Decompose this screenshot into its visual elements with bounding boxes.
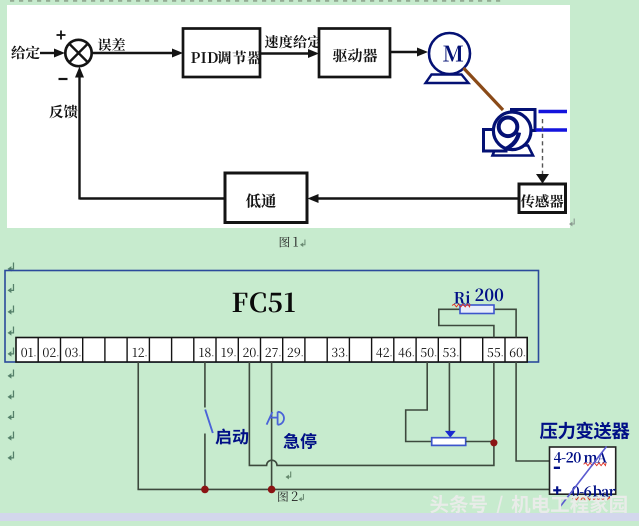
- resistor Ri 200: [460, 305, 494, 314]
- estop symbol: [267, 412, 273, 425]
- wire pot right to junction: [466, 441, 494, 443]
- wire feedback: [80, 197, 226, 199]
- label 压力变送器: [540, 422, 630, 440]
- white panel of figure 1: [7, 5, 570, 228]
- wire terminal 18 lower: [204, 434, 206, 490]
- transmitter minus: [554, 467, 560, 469]
- junction dot 27-bus: [268, 486, 276, 494]
- wire driver to motor: [390, 51, 421, 53]
- watermark 头条号/机电工程家园: [430, 495, 627, 515]
- label 急停 (e-stop): [284, 433, 317, 449]
- wire terminal 20 with crossover hop: [249, 362, 494, 465]
- bottom window bar: [0, 513, 639, 521]
- margin paragraph marks: [9, 263, 13, 269]
- switch blade 启动: [205, 410, 213, 434]
- wire terminal 27 upper: [271, 362, 273, 489]
- block PID调节器 U1: [183, 29, 260, 78]
- wire terminal 53 to wiper: [448, 362, 450, 431]
- wire terminal 18 upper: [204, 362, 206, 408]
- label 4-20 mA: [554, 452, 581, 463]
- terminal numbers: [21, 348, 33, 357]
- pipe upper: [539, 110, 568, 113]
- block 传感器 (sensor): [519, 184, 566, 213]
- squiggle under bar: [572, 497, 611, 500]
- label 速度给定 (speed ref): [265, 35, 321, 48]
- wire Ri left lead (terminal 55 top): [439, 309, 494, 337]
- FC51 enclosure box: [5, 271, 539, 363]
- junction dot pot-55: [490, 439, 497, 446]
- wire setpoint arrow into summer: [40, 52, 56, 54]
- label 200: [475, 289, 503, 302]
- block 驱动器 (driver): [319, 29, 390, 78]
- transmitter box: [550, 447, 616, 494]
- wire from terminal 12: [137, 362, 139, 489]
- label 反馈 (feedback): [49, 105, 77, 119]
- label 启动 (start): [215, 429, 248, 445]
- pipe lower: [536, 128, 568, 131]
- terminal strip: [16, 338, 527, 363]
- shaft motor-pump: [464, 68, 504, 110]
- label 误差 (error): [98, 38, 125, 51]
- potentiometer: [432, 438, 466, 446]
- label 0-6 bar: [572, 486, 591, 497]
- dashed tap line: [542, 119, 544, 174]
- wire bottom bus: [137, 488, 549, 490]
- wire terminal 55 down: [493, 362, 495, 443]
- transmitter response line: [560, 447, 607, 508]
- squiggle under Ri: [452, 304, 470, 307]
- junction dot 18-bus: [201, 486, 209, 494]
- wire sensor to lowpass: [314, 197, 519, 199]
- summing junction: [65, 40, 91, 66]
- squiggle under mA: [584, 463, 607, 466]
- block 低通 (low-pass): [225, 173, 307, 223]
- wire terminal 60 to transmitter minus: [516, 362, 549, 461]
- wire Ri right lead (terminal 60 top): [494, 309, 516, 337]
- label 给定 (setpoint): [11, 46, 39, 60]
- transmitter plus: [553, 489, 561, 491]
- caption 图 2: [278, 491, 288, 502]
- wire terminal 50 to pot left: [406, 362, 432, 442]
- caption 图 1: [280, 237, 290, 248]
- wire summer to PID: [92, 52, 177, 54]
- label Ri: [454, 291, 470, 304]
- pump: [493, 146, 534, 156]
- wire PID to driver: [260, 52, 312, 54]
- pilcrow near hop: [287, 472, 291, 478]
- plus sign: [57, 34, 66, 36]
- motor M: [429, 33, 470, 74]
- label FC51: [233, 292, 295, 312]
- pilcrow after figure1: [571, 219, 575, 225]
- minus sign: [59, 78, 68, 80]
- decorative top cut-off marks: [10, 0, 14, 2]
- wiper arrow: [445, 431, 456, 438]
